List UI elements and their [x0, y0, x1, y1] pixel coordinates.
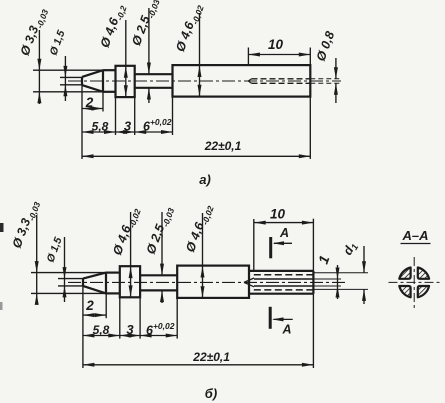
dim 22+-0.1 (a): [82, 155, 310, 157]
dim O4.6-0.02 main (b): [202, 213, 204, 298]
dim 22+-0.1 (b): [83, 364, 314, 366]
svg-text:5,8: 5,8: [93, 323, 110, 337]
dim chain 5.8 / 3 / 6+0.02 (b): [83, 335, 177, 337]
shaft body (a): cone tip: [82, 70, 103, 92]
dim O2.5-0.03 (b): [161, 212, 163, 275]
section A-A hatched quadrant sectors: [418, 268, 429, 279]
section plane mark A top: [269, 237, 272, 258]
extension lines below (b): [82, 286, 84, 368]
svg-text:б): б): [205, 386, 217, 401]
dim O2.5-0.03 (a): [148, 8, 150, 74]
shaft body (a): collar O4.6-0.2: [116, 66, 135, 97]
dim d1 (b): [313, 272, 368, 274]
svg-text:3: 3: [126, 322, 134, 337]
shaft body (a): groove O2.5: [135, 73, 173, 75]
section plane mark A bottom: [269, 307, 272, 329]
svg-text:3: 3: [124, 119, 132, 134]
dim O4.6-0.2 collar (a): [125, 20, 127, 97]
svg-text:А: А: [279, 226, 289, 240]
dim chain 5.8 / 3 / 6+0.02 (a): [82, 131, 173, 133]
dim 1 slot width (b): [312, 278, 341, 280]
shaft body (b): neck cylinder O3.3: [106, 272, 120, 274]
shaft body (b): collar O4.6-0.02: [120, 266, 140, 297]
slot lines (b): [254, 274, 314, 276]
svg-text:А–А: А–А: [401, 228, 428, 243]
dim 10 hole depth (a): [247, 48, 249, 66]
svg-text:10: 10: [270, 207, 286, 222]
dim 10 slot depth (b): [253, 219, 255, 271]
shaft body (b): cone tip: [83, 273, 106, 294]
scan speck left edge: [0, 223, 4, 232]
svg-text:22±0,1: 22±0,1: [204, 139, 242, 153]
dim 2 (a): [82, 108, 103, 110]
slot bottom cone (b): [244, 278, 254, 287]
svg-text:10: 10: [268, 37, 284, 52]
centerline figure b: [68, 281, 345, 283]
svg-text:А: А: [281, 323, 291, 337]
shaft body (a): main cylinder O4.6-0.02: [173, 65, 311, 97]
dim O3.3-0.03 (a): [33, 69, 103, 71]
svg-text:22±0,1: 22±0,1: [192, 350, 230, 364]
extension lines below (a): [81, 85, 83, 159]
shaft body (b): main cylinder O4.6-0.02: [177, 266, 249, 298]
dim O4.6-0.02 collar (b): [130, 212, 132, 297]
dim O1.5 (a): [60, 76, 82, 78]
dim 2 (b): [83, 314, 106, 316]
dim O4.6-0.02 main (a): [199, 13, 201, 96]
hole O0.8 hidden lines (a): [252, 78, 311, 80]
slotted end (b) outer edges d1: [249, 270, 313, 272]
centerline figure a: [68, 80, 341, 82]
svg-text:2: 2: [85, 298, 94, 313]
dim O1.5 (b): [58, 278, 83, 280]
dim O3.3-0.03 (b): [31, 272, 106, 274]
shaft body (b): groove O2.5: [140, 274, 177, 276]
shaft body (a): neck cylinder O3.3: [103, 69, 116, 71]
svg-text:а): а): [199, 172, 211, 187]
section A-A crosshair centerlines: [389, 281, 442, 283]
svg-text:5,8: 5,8: [92, 120, 109, 134]
dim O0.8 (a): [310, 78, 341, 80]
svg-text:2: 2: [85, 95, 94, 110]
